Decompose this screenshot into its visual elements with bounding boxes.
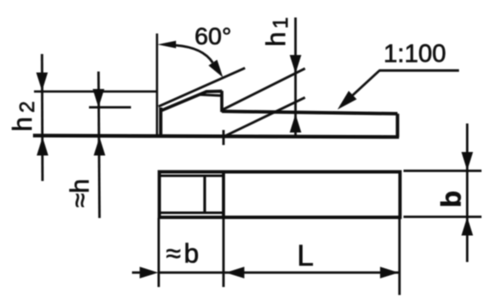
L left arrowhead [226,267,245,279]
approx-h lower arrowhead [94,137,106,156]
approx-h upper arrowhead [93,89,105,108]
svg-text:h2: h2 [8,101,40,131]
arc arrowhead right [209,60,224,78]
dimension approx-h line [99,72,100,219]
key right end edge [396,114,399,137]
b lower arrowhead [461,217,473,236]
h2 lower arrowhead [37,137,49,156]
nose top slope edge and crest [161,91,222,111]
extension line middle below plan view [222,218,224,287]
vertical reference line for 60 deg angle [156,34,158,137]
svg-text:≈h: ≈h [65,179,95,208]
b dimension top extension line [404,170,482,172]
svg-text:60°: 60° [195,24,232,51]
projection tick below nose back [222,130,224,145]
extension line left below plan view [157,218,159,287]
dimension h1 line [294,18,296,136]
extension line right below plan view [398,218,400,295]
plan view nose back edge [203,176,206,213]
svg-text:1:100: 1:100 [384,40,447,68]
extension line for h2 top [34,90,157,92]
60 deg dimension arc [176,45,213,62]
svg-text:h1: h1 [261,17,293,46]
plan view outer rectangle [159,172,400,218]
b dimension bottom extension line [404,216,482,218]
plan view body start edge [222,172,225,217]
extension line for approx h [89,106,131,108]
leader line 1:100 horizontal [379,69,459,71]
bottom dimension line [132,271,399,273]
dimension h2 line [41,54,44,181]
approx-b left outside arrowhead [140,267,159,279]
key bottom line (side view) with left extension [33,136,399,137]
key top taper surface 1:100 [222,111,398,113]
h2 upper arrowhead [36,73,48,92]
construction line L3: taper extension lower [224,98,305,137]
b dimension line [466,124,468,263]
construction line L2: taper extension upper [222,69,305,111]
leader arrowhead 1:100 [338,91,357,110]
leader line 1:100 diagonal [341,71,380,107]
svg-text:≈b: ≈b [166,239,202,269]
h1 upper arrowhead [290,55,302,74]
arc arrowhead left [158,41,177,48]
svg-text:b: b [436,191,467,208]
b upper arrowhead [461,152,473,171]
plan view bottom chamfer line [161,212,224,215]
construction line L1: nose slope extension [159,68,246,107]
nose back vertical edge [220,91,223,112]
plan view top chamfer line [161,174,224,177]
svg-text:L: L [297,240,314,273]
L right arrowhead [380,267,399,279]
key left edge (nose front face) [159,108,162,137]
h1 lower arrowhead [290,114,302,133]
nose crest chamfer line [200,95,222,96]
